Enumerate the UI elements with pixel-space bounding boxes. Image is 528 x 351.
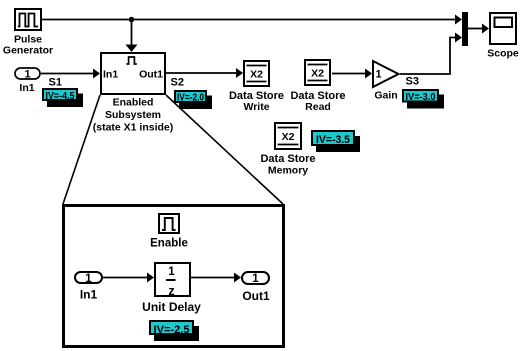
- data store write block: [244, 61, 269, 86]
- annotation IV=-4.5: [43, 89, 83, 107]
- wire: In1 to unit delay: [103, 273, 154, 283]
- svg-text:IV=-3.5: IV=-3.5: [316, 134, 350, 146]
- svg-text:1: 1: [24, 69, 30, 81]
- svg-text:S1: S1: [49, 77, 62, 89]
- svg-text:IV=-2.0: IV=-2.0: [177, 91, 204, 103]
- svg-text:1: 1: [375, 69, 381, 81]
- wire: subsystem Out1 to Data Store Write: [166, 68, 243, 78]
- pulse generator label: [3, 34, 53, 57]
- svg-text:Generator: Generator: [3, 45, 53, 57]
- svg-text:Out1: Out1: [242, 289, 270, 303]
- unit delay block: [155, 263, 190, 298]
- svg-text:Unit Delay: Unit Delay: [142, 300, 201, 314]
- svg-text:Enable: Enable: [150, 238, 188, 250]
- annotation IV=-3.5: [312, 131, 360, 152]
- annotation IV=-2.5: [150, 321, 199, 341]
- wire: branch down to enable port: [126, 20, 138, 53]
- svg-text:In1: In1: [19, 82, 34, 94]
- svg-text:1: 1: [252, 273, 259, 285]
- svg-text:Memory: Memory: [268, 165, 308, 177]
- svg-text:Scope: Scope: [487, 48, 519, 60]
- gain block: [373, 61, 399, 87]
- svg-text:1: 1: [85, 273, 92, 285]
- svg-text:In1: In1: [80, 288, 98, 302]
- svg-text:In1: In1: [103, 69, 118, 81]
- data store read label: [290, 90, 345, 113]
- svg-text:Gain: Gain: [374, 90, 397, 102]
- inport In1: [15, 68, 40, 81]
- annotation IV=-3.0: [403, 90, 444, 109]
- pulse generator block: [15, 9, 41, 30]
- wire: data store read to gain: [332, 69, 372, 79]
- svg-text:S2: S2: [171, 77, 184, 89]
- svg-text:Write: Write: [243, 101, 269, 113]
- data store write label: [229, 90, 284, 113]
- enabled subsystem label: [93, 97, 174, 134]
- callout line left: [63, 95, 100, 204]
- svg-text:X2: X2: [250, 69, 263, 81]
- callout line right: [166, 95, 283, 204]
- svg-text:(state X1 inside): (state X1 inside): [93, 122, 174, 134]
- annotation IV=-2.0: [175, 91, 212, 109]
- wire: gain to mux (with corner): [400, 33, 462, 75]
- svg-text:Out1: Out1: [139, 69, 163, 81]
- svg-text:X2: X2: [282, 131, 295, 143]
- detail subsystem box: [64, 206, 284, 347]
- svg-text:Enabled: Enabled: [113, 97, 154, 109]
- wire: mux to scope: [468, 24, 489, 34]
- data store memory label: [260, 153, 315, 177]
- svg-text:IV=-3.0: IV=-3.0: [406, 91, 436, 103]
- wire: pulse generator to mux: [42, 15, 462, 25]
- svg-text:Subsystem: Subsystem: [105, 109, 161, 121]
- svg-text:z: z: [168, 284, 174, 298]
- svg-text:S3: S3: [406, 76, 419, 88]
- enabled subsystem block U1: [101, 53, 165, 94]
- outport Out1 (detail): [242, 272, 269, 285]
- svg-text:IV=-2.5: IV=-2.5: [154, 324, 190, 336]
- inport In1 (detail): [75, 272, 102, 285]
- enable block: [159, 214, 179, 233]
- svg-text:Data Store: Data Store: [260, 153, 315, 165]
- svg-text:Read: Read: [305, 101, 331, 113]
- data store memory block: [275, 123, 301, 149]
- junction dot: [129, 17, 135, 23]
- svg-text:X2: X2: [311, 68, 324, 80]
- wire: unit delay to Out1: [191, 273, 241, 283]
- scope block: [490, 13, 516, 44]
- data store read block: [305, 60, 330, 85]
- svg-text:IV=-4.5: IV=-4.5: [46, 90, 75, 102]
- svg-text:1: 1: [168, 266, 175, 278]
- mux block: [462, 12, 468, 46]
- wire: In1 to subsystem: [41, 69, 100, 79]
